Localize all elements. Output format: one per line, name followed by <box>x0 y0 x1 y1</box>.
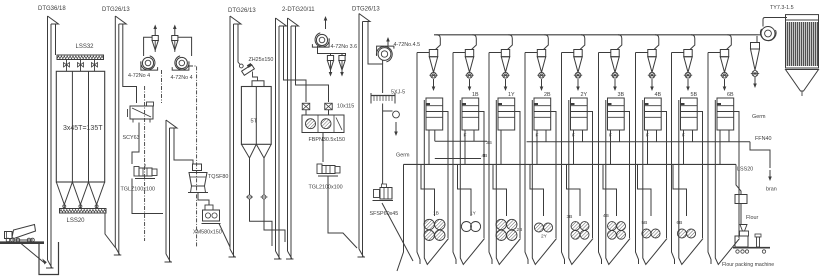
svg-text:5B: 5B <box>642 220 648 226</box>
svg-text:SFSP60x45: SFSP60x45 <box>370 211 399 217</box>
cyclone over mill 3B <box>611 50 619 79</box>
svg-text:DTG26/13: DTG26/13 <box>352 7 380 13</box>
bin discharge to elevators 5a/5b <box>250 199 273 246</box>
SFSP outlet slant to riser 1 <box>382 203 413 261</box>
svg-text:3B: 3B <box>486 140 492 146</box>
mill 6B outlet drop <box>719 130 721 164</box>
hammer mill SFSP60x45 <box>373 184 394 201</box>
plansifter section 2B <box>496 219 506 229</box>
line magnet down to SFSP <box>382 104 384 185</box>
svg-text:5B: 5B <box>691 92 698 98</box>
mill 2Y side exit <box>587 112 592 239</box>
duct cone1 to fan1 <box>144 37 153 56</box>
elevator 6 spout to magnet <box>368 22 383 94</box>
cyclone over mill feed <box>429 50 437 79</box>
elevator 3 discharge to TQSF80 <box>174 128 193 164</box>
plansifter section 3B <box>571 222 580 231</box>
holding bin 5T body <box>241 87 271 145</box>
svg-text:DTG36/18: DTG36/18 <box>38 6 66 12</box>
feed arrow into mill 2B <box>541 79 543 89</box>
mill 2B outlet drop <box>536 130 538 164</box>
silo inlet valves <box>64 60 70 72</box>
vibrating separator SCY63 <box>128 102 154 123</box>
right screw LSS20 drop <box>736 164 741 194</box>
mill 1B outlet drop <box>464 130 466 164</box>
main fan TY7.3-1.5 <box>760 18 787 41</box>
feed arrow into mill 6B <box>724 79 726 89</box>
roller mill 1Y <box>498 98 515 130</box>
main aspiration manifold <box>434 34 758 36</box>
svg-text:4-72No 3.6: 4-72No 3.6 <box>331 44 358 50</box>
feed arrow into mill 5B <box>687 79 689 89</box>
roller mill 5B <box>681 98 698 130</box>
svg-text:1Y: 1Y <box>470 211 477 217</box>
drop route to sifter 2Y <box>530 164 544 216</box>
fan exhaust arrow <box>387 40 389 48</box>
fan 4-72No 4 (second) <box>172 56 189 70</box>
truck at intake <box>5 225 36 242</box>
drop route to sifter 4B <box>603 164 617 216</box>
svg-text:4-72No 4: 4-72No 4 <box>171 75 193 81</box>
feed arrow into mill 1 <box>433 79 435 89</box>
svg-text:TGLZ100x100: TGLZ100x100 <box>121 187 155 193</box>
svg-text:1B: 1B <box>472 92 479 98</box>
cyclone riser duct feed <box>417 52 429 54</box>
svg-text:DTG26/13: DTG26/13 <box>102 7 130 13</box>
pit chute with arrow <box>21 244 44 263</box>
svg-text:TY7.3-1.5: TY7.3-1.5 <box>770 5 794 11</box>
cyclone over mill 2B <box>537 50 545 79</box>
relief cone 4 <box>339 56 345 73</box>
roller mill 2Y <box>571 98 588 130</box>
bucket elevator 2-DTG20/11 (b) <box>286 18 299 259</box>
mill 5B outlet drop <box>683 130 685 164</box>
mill 4B outlet drop <box>647 130 649 164</box>
roller mill 2B <box>534 98 551 130</box>
mill 2B side exit <box>551 112 556 239</box>
aspiration duct dash-dot right <box>189 66 197 247</box>
main collecting line to LSS20 <box>404 163 737 165</box>
elevator 5b spout <box>296 26 329 102</box>
aspiration duct dash-dot left <box>144 86 146 241</box>
cyclone riser duct 5B <box>672 52 684 54</box>
svg-text:LSS20: LSS20 <box>67 218 86 224</box>
svg-text:LSS20: LSS20 <box>737 167 753 173</box>
magnet 10x115 (left) <box>302 103 310 110</box>
silo hoppers <box>56 182 72 205</box>
mill 3B side exit <box>624 112 629 239</box>
cyclone over mill 4B <box>648 50 656 79</box>
silo hopper valves <box>63 205 66 209</box>
cyclone over mill 2Y <box>574 50 582 79</box>
holding bin 5T stepped top <box>252 81 264 87</box>
fan 3.6 exhaust arrow <box>325 19 327 30</box>
aspiration duct dash-dot to SCY63 <box>161 70 163 103</box>
line TGLZ to elevator 3 <box>132 179 163 214</box>
svg-text:4-72No.4.5: 4-72No.4.5 <box>394 42 421 48</box>
svg-text:FBPN30.5x150: FBPN30.5x150 <box>309 137 346 143</box>
line TGL2100 to elevator 6 boot <box>328 176 357 248</box>
svg-text:3B: 3B <box>567 214 573 220</box>
plansifter section 2Y <box>534 223 543 232</box>
svg-text:1B: 1B <box>433 211 439 217</box>
washer XM580x150 <box>202 205 221 224</box>
drop route to sifter 1B <box>421 164 435 216</box>
germ arrow <box>395 122 397 134</box>
svg-text:2B: 2B <box>544 92 551 98</box>
cyclone over mill 1Y <box>501 50 509 79</box>
screw conveyor LSS20 <box>60 209 107 214</box>
germ cyclone arrow <box>754 77 756 86</box>
mill 1B side exit <box>479 112 484 239</box>
flour line to bran arrow <box>750 142 770 168</box>
mill 2B sifter funnel <box>532 100 556 265</box>
svg-text:2Y: 2Y <box>581 92 588 98</box>
bucket elevator DTG36/18 <box>46 16 59 268</box>
feed arrow into mill 2Y <box>577 79 579 89</box>
cyclone riser duct 2Y <box>562 52 574 54</box>
cyclone over mill 6B <box>720 50 728 79</box>
air relief cone 1 <box>152 36 158 53</box>
roller mill 4B <box>645 98 662 130</box>
plansifter section 4B <box>608 222 617 231</box>
germ takeoff circle <box>383 110 393 112</box>
drop route to sifter 6B <box>673 164 687 216</box>
mill 3B outlet drop <box>610 130 612 164</box>
feeder ZH25x150 <box>239 64 243 68</box>
drop route to sifter 1Y <box>458 164 472 216</box>
svg-text:TGL2100x100: TGL2100x100 <box>309 185 343 191</box>
svg-text:3x45T=135T: 3x45T=135T <box>63 125 103 132</box>
svg-text:4-72No 4: 4-72No 4 <box>128 73 150 79</box>
cyclone riser duct 1B <box>453 52 465 54</box>
svg-text:3B: 3B <box>618 92 625 98</box>
mill 6B sifter funnel <box>715 100 739 265</box>
svg-text:4B: 4B <box>655 92 662 98</box>
mill 1Y outlet drop <box>500 130 502 164</box>
svg-text:5XJ-5: 5XJ-5 <box>391 90 405 96</box>
svg-text:SCY63: SCY63 <box>123 135 140 141</box>
fan 4-72No 4 (first) <box>141 56 158 70</box>
feed arrow into mill 1Y <box>505 79 507 89</box>
magnetic separator TGLZ100x100 <box>134 164 157 179</box>
elevator 4 head spout to feeder <box>238 24 240 65</box>
svg-text:2-DTG20/11: 2-DTG20/11 <box>282 7 315 13</box>
svg-text:4B: 4B <box>603 213 609 219</box>
ground line <box>0 241 44 244</box>
line FBPN to TGL2100x100 <box>322 133 324 163</box>
mill 1Y side exit <box>515 112 520 239</box>
magnet 5XJ-5 <box>371 93 395 104</box>
mill first side exit <box>443 112 448 239</box>
mill 4B sifter funnel <box>643 100 667 265</box>
roller mill 6B <box>717 98 734 130</box>
bin hoppers <box>241 144 256 158</box>
duct fan to relief cones <box>318 46 346 56</box>
LSS20 discharge line to elevator 2 <box>105 213 115 248</box>
screw conveyor LSS32 <box>57 55 104 60</box>
plansifter section 1Y <box>461 222 471 232</box>
svg-text:Germ: Germ <box>752 114 766 120</box>
mill 5B sifter funnel <box>679 100 703 265</box>
line to packing <box>740 204 742 225</box>
fan 4-72No 3.6 <box>312 33 329 47</box>
bucket elevator 2-DTG20/11 (a) <box>274 18 287 259</box>
vibro sieve FBPN30.5x150 <box>302 115 344 133</box>
cyclone riser duct 1Y <box>489 52 501 54</box>
fan inlet line <box>382 60 384 64</box>
bucket elevator DTG26/13 (second) <box>114 16 127 255</box>
elevator 1 head spout to LSS32 <box>55 24 57 55</box>
collecting line 4B <box>435 158 481 160</box>
svg-text:5T: 5T <box>251 119 258 125</box>
svg-text:2Y: 2Y <box>541 234 548 240</box>
magnetic separator TGL2100x100 <box>317 164 340 176</box>
mill 4B side exit <box>661 112 666 239</box>
bin hopper stems and slide valves <box>249 158 251 195</box>
bucket elevator DTG26/13 (fourth) <box>229 16 242 257</box>
line XM580 to elevator 4 boot <box>219 224 230 248</box>
wheat silo 3x45T=135T <box>56 71 104 182</box>
bucket elevator DTG26/13 (sixth) <box>358 14 371 258</box>
line SCY63 to TGLZ100x100 <box>132 123 139 165</box>
manifold into fan <box>758 34 761 36</box>
plansifter section 6B <box>677 229 686 238</box>
drop route to sifter 2B <box>493 164 507 216</box>
bran arrow <box>769 170 771 179</box>
cyclone riser duct 3B <box>599 52 611 54</box>
svg-text:Germ: Germ <box>396 153 410 159</box>
feed arrow into mill 4B <box>651 79 653 89</box>
svg-text:4B: 4B <box>482 153 488 159</box>
cyclone riser duct 6B <box>708 52 720 54</box>
svg-text:Flour packing machine: Flour packing machine <box>722 262 774 268</box>
svg-text:2B: 2B <box>517 227 523 233</box>
roller mill 1B <box>462 98 479 130</box>
mill 6B side exit <box>734 112 739 239</box>
plansifter section 1B <box>424 219 434 229</box>
magnet 10x115 (right) <box>325 103 333 110</box>
mill 1Y sifter funnel <box>496 100 520 265</box>
svg-text:TQSF80: TQSF80 <box>208 174 228 180</box>
drop route to sifter 5B <box>638 164 652 216</box>
jet filter dust collector <box>786 15 819 96</box>
roller mill 3B <box>608 98 625 130</box>
cyclone riser duct 2B <box>525 52 537 54</box>
duct cone2 to fan2 <box>178 37 192 56</box>
mill first outlet drop <box>428 130 430 164</box>
mill 3B sifter funnel <box>606 100 630 265</box>
mill 2Y sifter funnel <box>569 100 593 265</box>
mill 5B side exit <box>697 112 702 239</box>
svg-text:6B: 6B <box>727 92 734 98</box>
destoner TQSF80 <box>188 164 208 193</box>
svg-text:Flour: Flour <box>746 215 758 221</box>
svg-text:1Y: 1Y <box>508 92 515 98</box>
left boundary leg <box>397 164 404 271</box>
svg-text:ZH25x150: ZH25x150 <box>249 57 274 63</box>
feed arrow into mill 1B <box>469 79 471 89</box>
bucket elevator 3 <box>165 120 178 262</box>
line TQSF80 to XM580 <box>198 193 209 206</box>
elevator 5a spout <box>284 26 307 102</box>
intake pit <box>39 242 59 275</box>
svg-text:10x115: 10x115 <box>337 104 354 110</box>
svg-text:DTG26/13: DTG26/13 <box>228 8 256 14</box>
flour collecting line F <box>527 141 750 143</box>
feed arrow into mill 3B <box>614 79 616 89</box>
svg-text:FFN40: FFN40 <box>755 136 771 142</box>
germ cyclone <box>751 36 760 76</box>
drop route to sifter 3B <box>567 164 581 216</box>
cyclone over mill 1B <box>465 50 473 79</box>
collecting line 3B <box>435 140 487 142</box>
elevator 2 head spout to SCY63 <box>123 24 137 103</box>
plansifter section 5B <box>642 229 651 238</box>
svg-text:6B: 6B <box>677 220 683 226</box>
svg-text:LSS32: LSS32 <box>76 44 95 50</box>
mill 2Y outlet drop <box>573 130 575 164</box>
mill first sifter funnel <box>424 100 448 265</box>
roller mill first <box>426 98 443 130</box>
svg-text:XM580x150: XM580x150 <box>193 230 222 236</box>
cyclone over mill 5B <box>684 50 692 79</box>
relief cone 3 <box>327 56 333 73</box>
svg-text:bran: bran <box>766 187 777 193</box>
mill 1B sifter funnel <box>460 100 484 265</box>
air relief cone 2 <box>172 36 178 53</box>
fan 4-72No.4.5 <box>376 46 393 62</box>
cyclone riser duct 4B <box>636 52 648 54</box>
flour packing machine <box>733 225 770 254</box>
airlock box <box>735 195 747 204</box>
